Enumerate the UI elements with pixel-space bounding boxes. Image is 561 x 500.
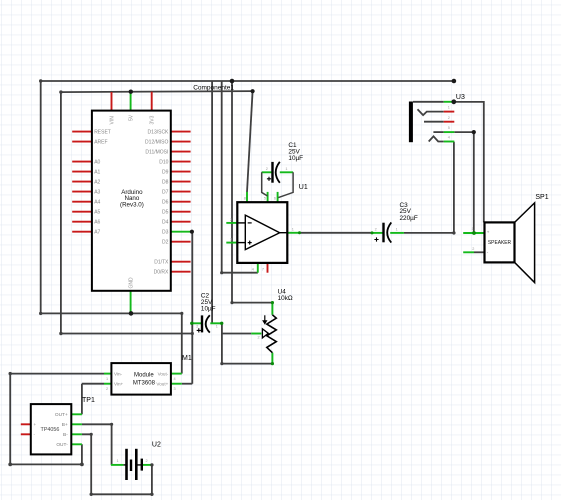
svg-text:3V3: 3V3 (150, 115, 156, 124)
svg-text:Vout+: Vout+ (156, 382, 168, 387)
svg-text:TP4056: TP4056 (41, 427, 60, 433)
svg-text:2: 2 (106, 387, 108, 391)
svg-text:OUT-: OUT- (56, 442, 68, 448)
svg-text:2: 2 (230, 218, 232, 222)
svg-text:A7: A7 (94, 230, 100, 236)
svg-text:5V: 5V (129, 114, 135, 121)
svg-text:A6: A6 (94, 220, 100, 226)
svg-text:1: 1 (396, 228, 398, 232)
svg-text:+: + (34, 422, 37, 427)
svg-text:D6: D6 (162, 200, 169, 206)
svg-text:2: 2 (266, 167, 268, 171)
svg-text:D1/TX: D1/TX (154, 260, 169, 266)
svg-text:MT3608: MT3608 (133, 381, 156, 387)
svg-text:1: 1 (472, 227, 474, 231)
svg-text:1: 1 (117, 459, 119, 463)
svg-text:SPEAKER: SPEAKER (488, 240, 511, 246)
svg-text:4: 4 (174, 377, 176, 381)
svg-text:B+: B+ (62, 422, 68, 428)
svg-text:2: 2 (196, 325, 198, 329)
svg-text:1: 1 (292, 228, 294, 232)
svg-text:8: 8 (244, 196, 246, 200)
svg-text:D4: D4 (162, 220, 169, 226)
svg-text:Module: Module (134, 372, 154, 378)
svg-text:A0: A0 (94, 159, 100, 165)
svg-text:A2: A2 (94, 179, 100, 185)
svg-text:D13/SCK: D13/SCK (148, 129, 170, 135)
svg-text:SP1: SP1 (535, 194, 548, 201)
svg-text:Componente1: Componente1 (193, 85, 234, 92)
svg-text:A3: A3 (94, 189, 100, 195)
svg-text:10µF: 10µF (288, 155, 303, 162)
svg-text:D8: D8 (162, 179, 169, 185)
svg-text:B-: B- (63, 432, 68, 438)
svg-text:5: 5 (448, 126, 450, 130)
svg-text:+: + (487, 230, 490, 235)
svg-text:Vout-: Vout- (158, 371, 169, 376)
svg-text:10kΩ: 10kΩ (278, 295, 293, 302)
svg-text:A4: A4 (94, 200, 100, 206)
svg-text:D3: D3 (162, 230, 169, 236)
svg-text:D12/MISO: D12/MISO (145, 139, 168, 145)
svg-text:Vin-: Vin- (114, 371, 123, 376)
svg-text:M1: M1 (182, 355, 192, 362)
svg-text:6: 6 (274, 196, 276, 200)
svg-text:D5: D5 (162, 210, 169, 216)
svg-text:VIN: VIN (109, 116, 115, 125)
svg-text:10µF: 10µF (201, 306, 216, 313)
svg-text:7: 7 (262, 268, 264, 272)
svg-text:4: 4 (448, 136, 450, 140)
svg-text:2: 2 (448, 116, 450, 120)
svg-text:U3: U3 (456, 94, 465, 101)
svg-text:RESET: RESET (94, 129, 111, 135)
svg-text:4: 4 (252, 268, 254, 272)
svg-text:A5: A5 (94, 210, 100, 216)
svg-text:D2: D2 (162, 240, 169, 246)
svg-text:A1: A1 (94, 169, 100, 175)
svg-text:D7: D7 (162, 189, 169, 195)
svg-text:3: 3 (174, 387, 176, 391)
svg-text:220µF: 220µF (400, 215, 418, 222)
svg-text:5: 5 (264, 196, 266, 200)
svg-text:1: 1 (448, 106, 450, 110)
svg-text:2: 2 (258, 336, 260, 340)
svg-text:1: 1 (106, 377, 108, 381)
svg-text:AREF: AREF (94, 139, 107, 145)
svg-text:U1: U1 (299, 184, 308, 191)
svg-text:1: 1 (285, 167, 287, 171)
svg-text:2: 2 (146, 459, 148, 463)
svg-text:TP1: TP1 (82, 397, 95, 404)
svg-text:D10: D10 (159, 159, 168, 165)
svg-text:Vin+: Vin+ (114, 382, 124, 387)
svg-text:(Rev3.0): (Rev3.0) (120, 201, 144, 208)
svg-text:U2: U2 (152, 441, 161, 448)
svg-text:3: 3 (230, 238, 232, 242)
svg-text:GND: GND (129, 277, 135, 289)
svg-text:2: 2 (375, 228, 377, 232)
svg-text:1: 1 (216, 325, 218, 329)
svg-text:D0/RX: D0/RX (154, 270, 169, 276)
svg-text:D9: D9 (162, 169, 169, 175)
svg-text:2: 2 (472, 247, 474, 251)
svg-text:D11/MOSI: D11/MOSI (145, 149, 168, 155)
svg-text:OUT+: OUT+ (55, 412, 68, 418)
